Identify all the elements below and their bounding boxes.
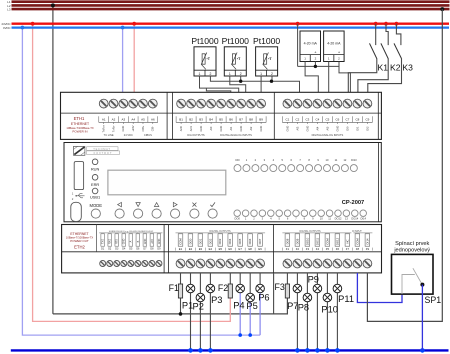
wire: Pt1000 #2 terminal 1 to PLC terminal B7/B8 — [230, 76, 246, 92]
svg-text:GND: GND — [144, 239, 147, 245]
svg-text:1: 1 — [260, 72, 262, 76]
power bus L3 — [12, 8, 450, 11]
svg-text:K2: K2 — [390, 63, 401, 73]
svg-text:DO1: DO1 — [198, 238, 202, 244]
PLC terminal screws C1-C9 — [283, 99, 372, 108]
node: junction 24VDC / K2 — [384, 22, 388, 26]
svg-text:TECOMAT: TECOMAT — [93, 147, 110, 151]
svg-text:DIGITAL OUTPUTS: DIGITAL OUTPUTS — [299, 230, 321, 233]
return bus (dark blue) — [11, 349, 449, 351]
svg-text:CIBUS: CIBUS — [144, 133, 152, 137]
svg-text:L3: L3 — [7, 8, 11, 12]
svg-text:A1: A1 — [102, 117, 106, 121]
wire: 4-20mA #2 terminal 1 to PLC terminal C5 — [328, 62, 330, 93]
svg-text:E1: E1 — [179, 247, 183, 251]
button symbols row (left,down,up,right,cancel,ok) — [118, 202, 215, 206]
wire: 4-20mA #1 terminal 1 to PLC terminal C4 — [305, 62, 318, 93]
svg-text:F7: F7 — [346, 247, 350, 251]
LCD display — [108, 170, 226, 195]
svg-text:B9: B9 — [259, 117, 263, 121]
svg-text:F2: F2 — [296, 247, 300, 251]
svg-text:TxRx+: TxRx+ — [102, 124, 106, 132]
svg-text:AI4: AI4 — [315, 126, 319, 130]
svg-text:CIB-: CIB- — [151, 126, 155, 131]
svg-text:DI2: DI2 — [365, 126, 369, 131]
svg-text:COM: COM — [355, 238, 359, 245]
svg-text:DO8: DO8 — [285, 238, 289, 244]
wire: terminal E9 to lamp P6 — [259, 273, 261, 289]
svg-text:Spínací prvek: Spínací prvek — [395, 241, 429, 247]
ETH1 RJ45 connector — [74, 162, 83, 190]
node: junction 24VDC / 4-20mA supply — [296, 22, 300, 26]
svg-text:P8: P8 — [298, 303, 309, 313]
wire: terminal E3 through lamp P2 to blue bus — [199, 273, 201, 351]
temperature sensor Pt1000 #1 — [194, 47, 216, 76]
power bus 0VDC — [12, 26, 450, 28]
svg-text:P9: P9 — [308, 274, 319, 284]
svg-text:GND: GND — [123, 239, 126, 245]
DI indicator LEDs row with labels — [234, 158, 357, 172]
svg-text:DO5: DO5 — [238, 238, 242, 244]
svg-text:E4: E4 — [209, 247, 213, 251]
svg-text:DO9: DO9 — [295, 238, 299, 244]
node: junction P1 / return bus — [188, 348, 193, 353]
lamp P3 — [206, 284, 215, 293]
wire: terminal E4 through lamp P3 to blue bus — [209, 273, 211, 351]
node: junction fuse F1 column / gray bus — [179, 312, 183, 316]
svg-text:RTS: RTS — [116, 239, 119, 244]
contact K2 fixed stub from 24VDC — [386, 24, 388, 45]
PLC terminal screws E1-E9 — [176, 259, 264, 268]
svg-text:C4: C4 — [315, 117, 319, 121]
LED RUN — [92, 159, 98, 165]
lamp P11 — [333, 284, 342, 293]
svg-text:A6: A6 — [151, 117, 155, 121]
svg-text:FOXTROT: FOXTROT — [94, 151, 113, 155]
svg-text:DIGITAL/ANALOG INPUTS: DIGITAL/ANALOG INPUTS — [220, 133, 252, 137]
wire: left light-blue riser from 0VDC down, bottom run to lamps P4-P6 — [22, 28, 260, 336]
svg-text:DI14: DI14 — [360, 217, 366, 221]
contact K3 moving arm — [394, 43, 402, 58]
PLC terminal screws D1-D9 (submodule) — [100, 261, 162, 267]
svg-text:TxRx-: TxRx- — [111, 125, 115, 132]
wire: terminal E8 to lamp P5 — [249, 273, 251, 298]
svg-text:D/A OUTPUTS: D/A OUTPUTS — [187, 133, 205, 137]
svg-text:Pt1000: Pt1000 — [222, 36, 249, 46]
svg-text:DO14: DO14 — [351, 217, 358, 221]
svg-text:+5V: +5V — [151, 239, 154, 244]
svg-text:E6: E6 — [229, 247, 233, 251]
svg-text:SP1: SP1 — [425, 295, 442, 305]
svg-text:A3: A3 — [122, 117, 126, 121]
node: junction Pt1000 #2 t2 / common — [239, 80, 242, 83]
fuse F3 — [285, 284, 289, 298]
svg-text:K3: K3 — [402, 63, 413, 73]
svg-text:DO12: DO12 — [335, 217, 342, 221]
terminal id labels F1-F9 — [286, 247, 370, 251]
svg-text:E7: E7 — [238, 247, 242, 251]
svg-text:DIGITAL/ANALOG INPUTS: DIGITAL/ANALOG INPUTS — [312, 133, 344, 137]
terminal labels row A1-A6 — [99, 116, 158, 132]
svg-text:DI13: DI13 — [351, 158, 357, 162]
fuse F2 — [228, 284, 232, 298]
wire: Pt1000 #3 terminal 1 to PLC terminal B9 — [260, 76, 262, 92]
terminal id labels E1-E9 — [179, 247, 262, 251]
svg-text:Pt1000: Pt1000 — [253, 36, 280, 46]
wire: terminal E7 to lamp P4 — [239, 273, 241, 289]
svg-text:CIB+: CIB+ — [141, 125, 145, 131]
svg-text:DO10: DO10 — [305, 237, 309, 245]
wire: K1 to PLC terminal C7 — [348, 58, 377, 92]
LED ERR — [92, 175, 98, 181]
svg-text:F1: F1 — [169, 283, 179, 293]
wire: Pt1000 #3 terminal 2 stub — [271, 76, 273, 81]
node: junction 24VDC / pink riser — [31, 22, 35, 26]
node: junction SP1 / return bus — [420, 348, 425, 353]
svg-text:RUN: RUN — [91, 167, 100, 172]
svg-text:24 VDC: 24 VDC — [124, 133, 133, 137]
svg-text:AI5: AI5 — [325, 126, 329, 130]
svg-text:E3: E3 — [199, 247, 203, 251]
svg-text:AI2: AI2 — [249, 126, 253, 130]
wire: Pt1000 #2 terminal 2 stub — [240, 76, 242, 81]
PLC terminal screws F1-F9 — [283, 259, 372, 268]
USB2 mini connector — [71, 202, 82, 221]
wire: terminal F5 through lamp P10 to blue bus — [326, 273, 328, 351]
svg-text:P4: P4 — [233, 300, 244, 310]
svg-text:B2: B2 — [189, 117, 193, 121]
svg-text:C7: C7 — [345, 117, 349, 121]
lamp P9 — [313, 284, 322, 293]
svg-text:P2: P2 — [193, 301, 204, 311]
svg-text:B4: B4 — [209, 117, 213, 121]
svg-text:GND: GND — [305, 126, 309, 132]
lamp P5 — [246, 293, 255, 302]
svg-text:AI0: AI0 — [209, 126, 213, 130]
lamp P10 — [323, 293, 332, 302]
svg-text:POWER OUT: POWER OUT — [70, 239, 89, 243]
terminal labels row B1-B9 — [176, 116, 266, 131]
fuse F1 — [178, 284, 182, 298]
svg-text:USB1: USB1 — [90, 195, 100, 200]
svg-text:ERR: ERR — [91, 182, 99, 187]
svg-text:B5: B5 — [219, 117, 223, 121]
svg-text:F3: F3 — [306, 247, 310, 251]
wire: terminal F4 through lamp P9 to blue bus — [316, 273, 318, 351]
svg-text:AO0: AO0 — [179, 125, 183, 131]
node: junction P7 / return bus — [295, 348, 300, 353]
svg-text:ETH1: ETH1 — [74, 116, 85, 121]
svg-text:GND: GND — [219, 126, 223, 132]
svg-text:2: 2 — [240, 72, 242, 76]
wire: lamp P5 to light-blue return — [249, 297, 251, 335]
svg-text:GND: GND — [335, 126, 339, 132]
wire: lamp P4 to light-blue return — [239, 288, 241, 335]
svg-text:C8: C8 — [355, 117, 359, 121]
svg-text:CP-2007: CP-2007 — [342, 200, 364, 206]
USB port pictogram — [72, 192, 85, 202]
current transmitter 4-20mA #1 — [300, 31, 321, 62]
switching element SP1 box — [392, 254, 434, 294]
node: junction 0VDC / A3 drop — [121, 26, 125, 30]
svg-text:AO1: AO1 — [189, 125, 193, 131]
lamp P6 — [256, 284, 265, 293]
svg-text:B7: B7 — [239, 117, 243, 121]
svg-text:P6: P6 — [258, 293, 269, 303]
svg-text:RXD: RXD — [109, 239, 112, 244]
node: junction 4-20mA #1 t2 / +24V line — [314, 65, 317, 68]
terminal pin labels F row — [282, 233, 372, 251]
svg-text:AI3: AI3 — [295, 126, 299, 130]
contact K1 fixed stub from 24VDC — [375, 24, 377, 45]
node: junction L2 / left gray riser — [51, 3, 55, 7]
wire: left pink riser from 24VDC down, bottom run, up to fuse F2 — [33, 24, 231, 322]
svg-text:1: 1 — [229, 72, 231, 76]
svg-text:TXD: TXD — [102, 239, 105, 244]
operator buttons row — [115, 209, 217, 218]
wire: terminal F3 through lamp P8 to blue bus — [306, 273, 308, 351]
wire: terminal E2 through lamp P1 to blue bus — [190, 273, 192, 351]
wire: terminal F2 through lamp P7 to blue bus — [296, 273, 298, 351]
svg-text:DO0: DO0 — [188, 238, 192, 244]
svg-text:GND: GND — [259, 126, 263, 132]
svg-text:0VDC: 0VDC — [3, 26, 10, 30]
svg-text:+24V: +24V — [131, 125, 135, 131]
PLC terminal screws A1-A6 — [99, 99, 157, 108]
temperature sensor Pt1000 #2 — [224, 47, 246, 76]
node: junction P11 / return bus — [335, 348, 340, 353]
svg-text:DO6: DO6 — [248, 238, 252, 244]
DO indicator LEDs row with labels — [234, 210, 367, 221]
svg-text:DI0: DI0 — [345, 126, 349, 131]
svg-text:jednopovelový: jednopovelový — [393, 247, 430, 253]
wire: terminal F8 to SP1 input (blue) — [357, 273, 402, 303]
SP1 internal contact node — [420, 283, 424, 287]
wire: lamp P6 to light-blue return — [259, 288, 261, 335]
SP1 internal pole wire — [402, 275, 415, 295]
svg-text:F1: F1 — [286, 247, 290, 251]
node: junction P10 / return bus — [325, 348, 330, 353]
svg-text:4-20 mA: 4-20 mA — [304, 42, 318, 46]
svg-text:F5: F5 — [326, 247, 330, 251]
svg-text:F3: F3 — [275, 282, 285, 292]
svg-text:TC LINE: TC LINE — [104, 133, 114, 137]
svg-text:A2: A2 — [112, 117, 116, 121]
svg-text:D INPUT: D INPUT — [352, 230, 362, 233]
svg-text:DI0: DI0 — [235, 158, 240, 162]
PLC middle section inner right edge line — [378, 143, 380, 222]
svg-text:DO4: DO4 — [228, 238, 232, 244]
svg-text:DIGITAL OUTPUTS: DIGITAL OUTPUTS — [209, 230, 231, 233]
svg-text:C9: C9 — [365, 117, 369, 121]
svg-text:K1: K1 — [378, 63, 389, 73]
node: junction P4 / light-blue return — [238, 333, 242, 337]
svg-text:B1: B1 — [179, 117, 183, 121]
wire: left gray riser from L2 bus down left side to gray lamp-feed bus — [52, 5, 54, 314]
PLC terminal screws B1-B9 — [177, 99, 266, 108]
svg-text:F9: F9 — [366, 247, 370, 251]
svg-text:B6: B6 — [229, 117, 233, 121]
node: junction P5 / light-blue return — [248, 333, 252, 337]
lamp P4 — [236, 284, 245, 293]
node: junction P3 / return bus — [208, 348, 213, 353]
svg-text:MODE: MODE — [90, 203, 103, 208]
node: junction 24VDC / K3 — [395, 22, 399, 26]
svg-text:POWER IN: POWER IN — [72, 129, 87, 133]
svg-text:P10: P10 — [321, 305, 338, 315]
node: junction P8 / return bus — [305, 348, 310, 353]
svg-text:1: 1 — [199, 72, 201, 76]
wire: terminal F9 loop to L3 riser — [367, 9, 442, 321]
wire: terminal E6 to fuse F2 — [229, 273, 231, 285]
svg-text:C6: C6 — [335, 117, 339, 121]
wire: Pt1000 spur to PLC terminal B6 — [206, 88, 230, 92]
wire: terminal F1 to fuse F3 — [286, 273, 288, 285]
wire: SP1 output to return bus (blue) — [421, 285, 423, 351]
svg-text:DI14: DI14 — [365, 238, 369, 244]
contact K3 fixed stub from 24VDC — [396, 24, 401, 45]
svg-text:ETHERNET: ETHERNET — [70, 232, 88, 236]
svg-text:C1: C1 — [285, 117, 289, 121]
svg-text:DO11: DO11 — [315, 238, 319, 246]
lamp P1 — [186, 284, 195, 293]
wire: terminal F6 through lamp P11 to blue bus — [336, 273, 338, 351]
power bus L2 — [12, 4, 450, 7]
manufacturer logo block — [74, 146, 120, 155]
terminal labels row C1-C9 — [282, 116, 372, 131]
current transmitter 4-20mA #2 — [324, 31, 345, 62]
node: junction 24VDC / A4 drop — [132, 22, 136, 26]
svg-text:E9: E9 — [258, 247, 262, 251]
svg-text:DO0: DO0 — [235, 217, 241, 221]
svg-text:C2: C2 — [295, 117, 299, 121]
svg-text:COM: COM — [178, 238, 182, 245]
wire: terminal E1 to fuse F1 and down to gray bus — [180, 273, 182, 314]
svg-text:ETHERNET: ETHERNET — [71, 122, 89, 126]
wire: terminal strip divider column to gray bus — [273, 273, 275, 314]
svg-text:4-20 mA: 4-20 mA — [327, 42, 341, 46]
contact K1 moving arm — [370, 43, 377, 58]
node: junction Pt1000 #3 t2 / common — [270, 80, 273, 83]
temperature sensor Pt1000 #3 — [256, 47, 278, 76]
svg-text:DI1: DI1 — [355, 126, 359, 131]
PLC bottom terminal section housing — [62, 225, 382, 273]
svg-text:F4: F4 — [316, 247, 320, 251]
terminal id labels D1-D9 — [101, 248, 161, 251]
wire: gray lamp-feed bus (horizontal) to fuse F3 column, up to fuse F3 — [53, 298, 288, 314]
svg-text:F6: F6 — [336, 247, 340, 251]
wire: light-blue drop from 0VDC to PLC terminal A3 — [122, 28, 124, 93]
PLC middle section housing — [64, 143, 381, 222]
SP1 internal contact arm — [413, 268, 423, 285]
wire: Pt1000 #1 terminal 1 to PLC terminal B7 — [200, 76, 239, 92]
svg-text:GND: GND — [158, 239, 161, 245]
svg-text:Pt1000: Pt1000 — [191, 36, 218, 46]
terminal pin labels D row — [99, 233, 162, 246]
svg-text:DO7: DO7 — [258, 238, 262, 244]
lamp P2 — [196, 293, 205, 302]
node: junction P2 / return bus — [198, 348, 203, 353]
lamp P8 — [303, 293, 312, 302]
lamp P7 — [293, 284, 302, 293]
svg-text:2: 2 — [209, 72, 211, 76]
svg-text:2: 2 — [271, 72, 273, 76]
svg-text:F2: F2 — [218, 283, 228, 293]
svg-text:ETH2: ETH2 — [74, 245, 85, 250]
wire: Pt1000 common line (t2 of all sensors) to PLC terminal C2 — [210, 76, 299, 92]
svg-text:GND: GND — [199, 126, 203, 132]
svg-text:A4: A4 — [131, 117, 135, 121]
svg-text:GND: GND — [239, 126, 243, 132]
PLC top terminal section housing — [61, 92, 382, 139]
power bus +24VDC — [12, 23, 450, 25]
svg-text:P11: P11 — [338, 294, 354, 304]
svg-text:A5: A5 — [141, 117, 145, 121]
svg-text:B8: B8 — [249, 117, 253, 121]
button MODE — [91, 209, 100, 218]
wire: 24VDC supply riser to 4-20mA transmitters — [297, 24, 299, 67]
svg-text:DO3: DO3 — [218, 238, 222, 244]
wire: K2 to PLC terminal C8 — [358, 58, 388, 92]
svg-text:F8: F8 — [356, 247, 360, 251]
svg-text:P3: P3 — [211, 295, 222, 305]
svg-text:P5: P5 — [246, 301, 257, 311]
svg-text:B3: B3 — [199, 117, 203, 121]
svg-text:GND: GND — [285, 126, 289, 132]
node: junction 24VDC / K1 — [374, 22, 378, 26]
svg-text:COM: COM — [325, 238, 329, 245]
node: junction 0VDC / left light-blue riser — [21, 26, 25, 30]
LED USB1 — [92, 188, 98, 194]
svg-text:NC: NC — [345, 239, 349, 243]
wire: 4-20mA #1 terminal 2 stub — [314, 62, 316, 67]
svg-text:GND: GND — [121, 126, 125, 132]
terminal pin labels E row — [176, 233, 266, 251]
power bus L1 — [12, 0, 450, 3]
node: junction P9 / return bus — [315, 348, 320, 353]
svg-text:E2: E2 — [189, 247, 193, 251]
svg-text:SUBMODULE1 (e.g. RS-485) SUBMO: SUBMODULE1 (e.g. RS-485) SUBMODULE2 — [109, 231, 154, 233]
svg-text:C3: C3 — [305, 117, 309, 121]
svg-text:DO12: DO12 — [335, 237, 339, 245]
wire: pink drop from 24VDC to PLC terminal A4 — [133, 24, 135, 93]
contact K2 moving arm — [381, 43, 388, 58]
wire: +24V line joining both 4-20mA '+' terminals — [298, 65, 339, 67]
wire: K3 to PLC terminal C9 — [368, 58, 402, 92]
svg-text:AI1: AI1 — [229, 126, 233, 130]
svg-text:C5: C5 — [325, 117, 329, 121]
wire: 4-20mA #2 terminal 2 to PLC terminal C7 — [339, 62, 350, 93]
svg-text:E8: E8 — [248, 247, 252, 251]
node: junction L3 / right gray riser — [440, 7, 444, 11]
svg-text:E5: E5 — [219, 247, 223, 251]
svg-text:DO2: DO2 — [208, 238, 212, 244]
